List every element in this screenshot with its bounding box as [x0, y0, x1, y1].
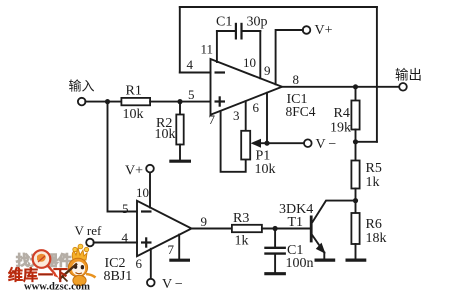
svg-text:R4: R4 — [334, 106, 350, 121]
wire: R3 to base node — [262, 228, 310, 230]
node: R4/R5 feedback junction — [353, 139, 358, 144]
capacitor C1 (30p) — [236, 23, 242, 40]
wire: feedback right vertical — [376, 7, 378, 142]
terminal: V+ (IC1) — [303, 26, 311, 34]
ground (below R6) — [346, 259, 367, 262]
ground (IC2 pin 7) — [169, 259, 190, 262]
svg-text:10k: 10k — [155, 127, 176, 142]
wire: IC1 inverting input — [180, 72, 211, 74]
svg-text:输入: 输入 — [69, 79, 95, 94]
svg-text:7: 7 — [209, 112, 216, 127]
svg-text:V −: V − — [316, 137, 337, 152]
svg-text:V ref: V ref — [75, 223, 103, 238]
svg-text:V −: V − — [162, 277, 183, 292]
watermark — [8, 244, 96, 292]
svg-text:5: 5 — [188, 87, 195, 102]
transistor T1 — [311, 201, 355, 259]
svg-text:10k: 10k — [123, 107, 144, 122]
svg-text:1k: 1k — [366, 175, 380, 190]
ground (below C1 100n) — [264, 272, 286, 275]
wire: pin 7 to P1 bottom — [221, 111, 246, 172]
svg-text:输出: 输出 — [395, 68, 422, 83]
wire: V+ to pin 9 — [276, 30, 303, 84]
wire: pin 10 stem — [259, 31, 261, 78]
svg-text:V+: V+ — [125, 164, 143, 179]
node: base / C1 junction — [273, 226, 278, 231]
node: R1/R2 junction — [177, 99, 182, 104]
terminal: output — [399, 83, 407, 91]
wire: pin 6 stem (IC2) — [150, 249, 152, 279]
wire: feedback bottom to R4/R5 node — [356, 141, 377, 143]
svg-text:4: 4 — [122, 230, 129, 245]
svg-text:R1: R1 — [126, 84, 142, 99]
wire: feedback left vertical to inverting input — [179, 7, 181, 73]
svg-text:9: 9 — [201, 214, 208, 229]
resistor R1 — [121, 98, 150, 105]
svg-text:7: 7 — [168, 242, 175, 257]
wire: pin 3 stem to P1 top — [245, 101, 247, 131]
wire: pin 7 stem (IC2) — [178, 235, 180, 259]
svg-text:R6: R6 — [366, 217, 382, 232]
svg-text:11: 11 — [201, 42, 214, 57]
wire: C1 left lead — [217, 30, 236, 32]
terminal: V+ (IC2) — [146, 165, 154, 173]
svg-text:3: 3 — [233, 108, 240, 123]
resistor R5 — [351, 142, 359, 201]
resistor R6 — [351, 201, 359, 259]
svg-text:1k: 1k — [235, 234, 249, 249]
capacitor C1 (100n) — [264, 229, 286, 273]
svg-text:V+: V+ — [315, 23, 333, 38]
wire: input terminal to R1 — [85, 101, 121, 103]
svg-text:8: 8 — [293, 72, 300, 87]
svg-text:10k: 10k — [255, 162, 276, 177]
svg-text:4: 4 — [187, 57, 194, 72]
op-amp IC1 — [211, 59, 283, 115]
svg-text:10: 10 — [243, 55, 256, 70]
svg-text:10: 10 — [136, 185, 149, 200]
svg-text:18k: 18k — [366, 231, 387, 246]
svg-text:6: 6 — [136, 256, 143, 271]
wire: pin 11 stem — [216, 31, 218, 62]
wire: IC2 output to R3 — [192, 228, 232, 230]
wire: IC1 output — [282, 86, 399, 88]
node: input junction — [105, 99, 110, 104]
wire: input node down to IC2 inverting input — [108, 102, 138, 212]
svg-text:R5: R5 — [366, 161, 382, 176]
wire: C1 right lead — [242, 30, 261, 32]
node: pin6 / wiper junction — [264, 141, 269, 146]
svg-text:100n: 100n — [286, 256, 314, 271]
svg-text:www.dzsc.com: www.dzsc.com — [24, 282, 90, 293]
svg-text:C1: C1 — [216, 15, 232, 30]
resistor R3 — [232, 225, 262, 232]
ground (below R2) — [169, 160, 191, 163]
node: R5/R6/collector junction — [353, 198, 358, 203]
svg-text:5: 5 — [122, 201, 129, 216]
svg-text:19k: 19k — [330, 121, 351, 136]
resistor R2 — [176, 102, 183, 159]
terminal: V− (IC1) — [304, 139, 312, 147]
wire: pin 6 stem — [266, 93, 268, 143]
svg-text:8BJ1: 8BJ1 — [104, 269, 133, 284]
potentiometer P1 — [241, 131, 304, 160]
svg-text:R3: R3 — [233, 211, 249, 226]
resistor R4 — [351, 87, 359, 142]
svg-text:T1: T1 — [288, 215, 304, 230]
svg-text:6: 6 — [253, 100, 260, 115]
wire: pin 10 stem (IC2) — [149, 172, 151, 207]
wire: feedback top horizontal — [180, 6, 377, 8]
terminal: V− (IC2) — [147, 279, 155, 287]
svg-text:30p: 30p — [247, 15, 268, 30]
svg-text:8FC4: 8FC4 — [286, 104, 316, 119]
terminal: input — [78, 98, 86, 106]
op-amp IC2 — [137, 201, 192, 256]
wire: R1 to IC1 noninverting input — [150, 101, 210, 103]
ground (emitter) — [315, 259, 336, 262]
node: output / R4 junction — [353, 84, 358, 89]
wire: V ref to IC2 noninverting input — [94, 242, 137, 244]
svg-text:9: 9 — [264, 63, 271, 78]
terminal: V ref — [86, 239, 94, 247]
